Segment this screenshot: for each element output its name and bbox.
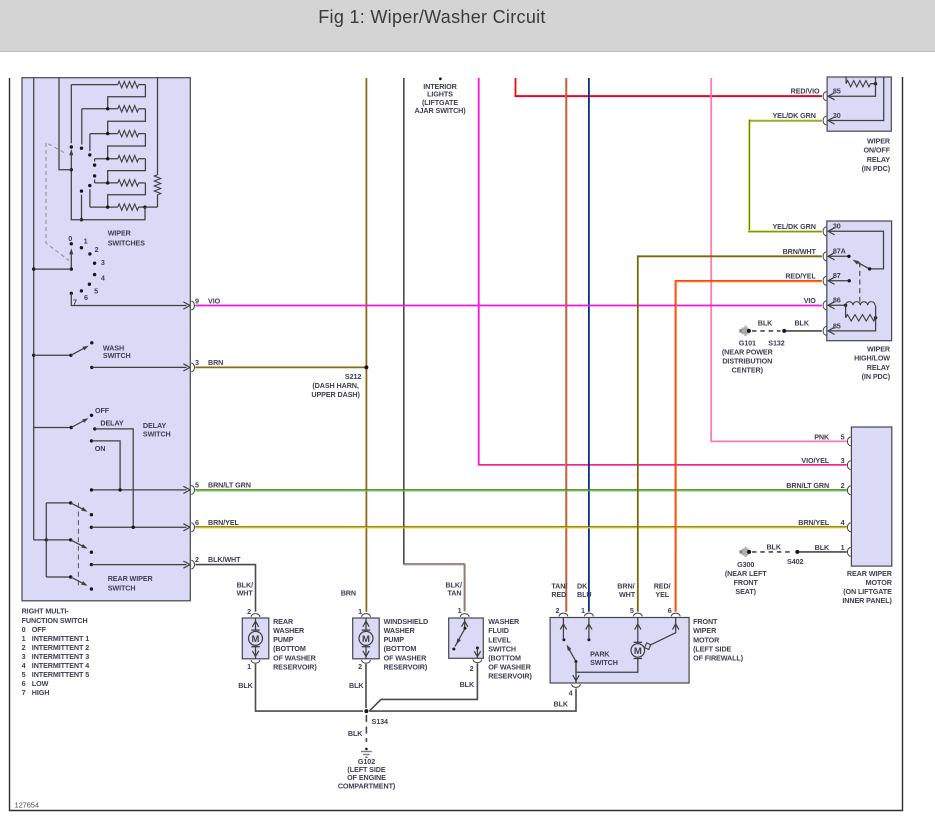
svg-text:FRONT: FRONT [693, 617, 718, 626]
svg-text:1: 1 [458, 606, 462, 615]
node 86 coil junction [844, 304, 847, 307]
svg-text:PUMP: PUMP [384, 635, 405, 644]
svg-text:1: 1 [84, 237, 88, 246]
pin 2 arc bottom [362, 660, 371, 663]
svg-text:SWITCH: SWITCH [103, 351, 131, 360]
svg-text:BLK: BLK [815, 543, 830, 552]
svg-text:VIO/YEL: VIO/YEL [801, 456, 829, 465]
node delay OFF contact [90, 414, 93, 417]
pin 1 arc top fw [585, 613, 594, 616]
node contact 0 [70, 242, 73, 245]
svg-text:SWITCHES: SWITCHES [108, 238, 145, 247]
node pin5 start [90, 488, 93, 491]
svg-text:(IN PDC): (IN PDC) [862, 164, 891, 173]
pin 2 arc bottom [473, 659, 482, 662]
svg-text:RED/YEL: RED/YEL [785, 272, 816, 281]
svg-text:LEVEL: LEVEL [488, 635, 511, 644]
wire U2 pin30 internal [830, 231, 884, 269]
fluid switch bottom lead [476, 648, 478, 658]
wire pin 2 output [91, 564, 186, 566]
pin 6 arc top [671, 613, 680, 616]
fluid switch top lead [464, 618, 466, 628]
svg-text:2: 2 [358, 662, 362, 671]
wire rail to wash pivot [34, 354, 71, 356]
svg-text:9: 9 [195, 296, 199, 305]
svg-text:REAR WIPER: REAR WIPER [847, 569, 893, 578]
svg-text:BRN/YEL: BRN/YEL [208, 518, 240, 527]
node rail junction wash [32, 354, 35, 357]
svg-text:M: M [252, 634, 260, 645]
wire YEL/DK GRN relay30 to relay30 [749, 119, 822, 121]
svg-text:(LEFT SIDE: (LEFT SIDE [693, 644, 731, 653]
svg-text:G101: G101 [739, 339, 756, 348]
svg-text:MOTOR: MOTOR [866, 578, 893, 587]
svg-text:TAN: TAN [448, 589, 462, 598]
dashed BLK to G300 [752, 551, 794, 553]
node rear wiper feed junction [45, 538, 48, 541]
wire BLK windshield pump to S134 [365, 664, 367, 708]
node delay DELAY contact [93, 427, 96, 430]
node park pin2 contact [562, 638, 565, 641]
svg-text:BRN: BRN [208, 358, 223, 367]
node pin6 delay junction [132, 526, 135, 529]
washer fluid level switch box [449, 618, 484, 658]
svg-text:(IN PDC): (IN PDC) [862, 372, 891, 381]
svg-text:AJAR SWITCH): AJAR SWITCH) [414, 106, 466, 115]
pin 87A connector arc [823, 252, 826, 261]
wire R2 right staircase to R3 [108, 109, 146, 134]
svg-text:2: 2 [195, 555, 199, 564]
node contact R1 [70, 145, 73, 148]
wire PNK vertical from top [710, 78, 712, 441]
svg-text:RESERVOIR): RESERVOIR) [488, 672, 532, 681]
node fluid blade top [464, 627, 467, 630]
pin 30 connector arc U2 [823, 227, 826, 236]
wire ladder bottom wrap rail [71, 170, 145, 220]
svg-text:CENTER): CENTER) [732, 366, 764, 375]
svg-text:SWITCH: SWITCH [488, 644, 516, 653]
svg-text:6: 6 [22, 679, 26, 688]
svg-text:86: 86 [833, 296, 841, 305]
pin 5 exit arrow [183, 486, 190, 493]
svg-text:2: 2 [841, 481, 845, 490]
pin 85 connector arc U2 [823, 327, 826, 336]
wire RED/VIO horizontal to wiper on/off relay pin 85 [515, 96, 822, 98]
node wash output contact [90, 366, 93, 369]
svg-text:OF FIREWALL): OF FIREWALL) [693, 654, 744, 663]
svg-text:LOW: LOW [32, 679, 49, 688]
svg-text:RED/VIO: RED/VIO [791, 86, 820, 95]
pin 1 arc top [362, 614, 371, 617]
node wash contact [90, 341, 93, 344]
wire top arm feed [46, 502, 70, 504]
svg-text:RELAY: RELAY [867, 155, 891, 164]
windshield pump top lead [365, 618, 367, 630]
U2 switch blade [855, 261, 870, 269]
svg-text:(NEAR POWER: (NEAR POWER [722, 348, 774, 357]
svg-text:VIO: VIO [804, 296, 817, 305]
svg-text:SWITCH: SWITCH [108, 584, 136, 593]
middle blade [71, 540, 85, 547]
svg-text:OFF: OFF [32, 625, 47, 634]
svg-text:INNER PANEL): INNER PANEL) [842, 596, 892, 605]
svg-text:1: 1 [22, 634, 26, 643]
title bar [0, 0, 935, 52]
pin 30 connector arc [823, 116, 826, 125]
node wash pivot [69, 354, 72, 357]
svg-text:5: 5 [630, 606, 634, 615]
node U2 resistor right [874, 316, 877, 319]
node park pivot [575, 660, 578, 663]
interior lights off-page marker [439, 77, 442, 80]
wire U1 pin30 internal [830, 77, 884, 121]
svg-text:5: 5 [22, 670, 26, 679]
svg-text:BRN/YEL: BRN/YEL [798, 518, 830, 527]
svg-text:127654: 127654 [15, 801, 39, 810]
svg-text:YEL/DK GRN: YEL/DK GRN [772, 222, 815, 231]
svg-text:S402: S402 [787, 557, 803, 566]
svg-text:DELAY: DELAY [100, 418, 124, 427]
ground G102 [365, 748, 368, 751]
svg-text:3: 3 [22, 652, 26, 661]
node fluid blade bottom [452, 648, 455, 651]
wiper on/off relay U1 [827, 77, 891, 131]
park switch pin2 lead [562, 618, 564, 639]
wire U2 pin86 internal [830, 304, 846, 306]
top blade [71, 503, 85, 510]
splice S402 [795, 550, 799, 554]
wire DK BLU vertical from top to front wiper motor pin 1 [588, 78, 590, 612]
svg-text:4: 4 [101, 273, 105, 282]
node R3 junction [106, 132, 109, 135]
wire BLK vertical from top [403, 78, 405, 564]
node pin6 contact [90, 526, 93, 529]
wire BLK/WHT pin 2 to rear washer pump [195, 565, 255, 612]
delay blade [71, 420, 86, 428]
node contact 4 [93, 273, 96, 276]
pin 6 exit arrow [183, 524, 190, 531]
wire R6 left stub [89, 189, 91, 207]
motor brush tab [645, 643, 651, 650]
svg-text:DISTRIBUTION: DISTRIBUTION [722, 357, 772, 366]
resistor R2 [82, 108, 118, 110]
wire middle arm feed [46, 539, 70, 541]
svg-text:2: 2 [95, 245, 99, 254]
svg-text:WIPER: WIPER [693, 626, 717, 635]
svg-text:PUMP: PUMP [273, 635, 294, 644]
svg-text:UPPER DASH): UPPER DASH) [311, 390, 360, 399]
wire BLK rear motor pin1 to S402 [797, 551, 847, 553]
lower selector arm [69, 248, 73, 254]
pin 5 arc [847, 437, 850, 446]
svg-text:HIGH: HIGH [32, 688, 50, 697]
pin 6 lead to motor [650, 618, 676, 646]
node contact R6 [88, 184, 91, 187]
svg-text:RESERVOIR): RESERVOIR) [273, 662, 317, 671]
node contact 1 [80, 246, 83, 249]
pin 3 exit arrow [183, 364, 190, 371]
wire BRN vertical from top to S212 and windshield pump [365, 78, 367, 612]
wire BRN/LT GRN pin 5 to rear wiper motor pin 2 [195, 489, 847, 491]
upper selector arm arrow [69, 149, 73, 155]
pin 1 arc [847, 548, 850, 557]
wire BLK/TAN to washer fluid level switch [403, 563, 464, 565]
node R6 junction [106, 205, 109, 208]
node contact R2 [80, 147, 83, 150]
svg-text:BLK: BLK [758, 319, 773, 328]
front wiper motor box [550, 618, 689, 684]
wire BRN/YEL pin 6 to rear wiper motor pin 4 [195, 526, 847, 528]
bottom blade [71, 577, 85, 584]
node rail junction at lower arm [32, 267, 35, 270]
node wrap junction on bottom rail [80, 218, 83, 221]
node 87 contact [848, 279, 851, 282]
svg-text:85: 85 [833, 87, 841, 96]
resistor R7 vertical with rail to top [157, 78, 159, 175]
svg-text:SWITCH: SWITCH [590, 658, 618, 667]
svg-text:BLK: BLK [349, 681, 364, 690]
svg-text:RIGHT MULTI-: RIGHT MULTI- [22, 606, 70, 615]
svg-text:WASHER: WASHER [384, 626, 416, 635]
wiper high/low relay U2 [827, 221, 892, 341]
node contact 6 [80, 289, 83, 292]
pin 1 arc top [460, 614, 469, 617]
svg-text:OF WASHER: OF WASHER [384, 653, 428, 662]
pin 86 connector arc [823, 301, 826, 310]
pin 1 arc bottom [251, 660, 260, 663]
node R5 junction [106, 181, 109, 184]
node R6 right end [143, 205, 146, 208]
park pivot to pin 4 [575, 662, 577, 683]
svg-text:MOTOR: MOTOR [693, 635, 720, 644]
svg-text:S134: S134 [372, 717, 388, 726]
dashed BLK to G101 [752, 330, 781, 332]
wire R1 right staircase to R2 [108, 85, 146, 109]
svg-text:5: 5 [841, 432, 845, 441]
node U2 common [868, 267, 871, 270]
node contact 5 [88, 283, 91, 286]
wire U2 pin87A internal [830, 255, 849, 257]
svg-text:INTERMITTENT 1: INTERMITTENT 1 [32, 634, 89, 643]
svg-text:1: 1 [358, 607, 362, 616]
pin 2 arc top [559, 613, 568, 616]
resistor R1 [71, 84, 118, 86]
svg-text:3: 3 [195, 358, 199, 367]
U2 mechanical link dashed [859, 262, 861, 303]
pin 3 arc [847, 461, 850, 470]
svg-text:BLK: BLK [348, 729, 363, 738]
resistor R5 [95, 182, 118, 184]
svg-text:G300: G300 [737, 560, 754, 569]
wire rail to delay pivot [34, 427, 71, 429]
node contact 2 [88, 252, 91, 255]
pin 5 lead to motor [637, 618, 639, 643]
wire RED/YEL front wiper motor pin6 to relay 87 [674, 281, 676, 612]
svg-text:S132: S132 [768, 339, 784, 348]
pin 87 connector arc [823, 276, 826, 285]
svg-text:5: 5 [195, 480, 199, 489]
left supply rail [33, 78, 35, 540]
node pin5 ON junction [118, 488, 121, 491]
svg-text:5: 5 [94, 287, 98, 296]
svg-text:BLK: BLK [794, 319, 809, 328]
node fluid bottom contact [476, 647, 479, 650]
wire bottom arm feed [46, 576, 70, 578]
wire BLK relay85 to S132 [784, 330, 822, 332]
svg-text:2: 2 [555, 606, 559, 615]
svg-text:85: 85 [833, 321, 841, 330]
svg-text:WHT: WHT [237, 589, 254, 598]
svg-text:OFF: OFF [95, 406, 110, 415]
wire BLK rear pump to S134 rail [256, 664, 364, 711]
rear pump bottom lead [255, 647, 257, 659]
relay U1 coil resistor [845, 77, 847, 84]
svg-text:ON/OFF: ON/OFF [863, 146, 890, 155]
svg-text:1: 1 [581, 606, 585, 615]
wire U1 coil to top [875, 77, 877, 84]
node pin2 contact [90, 563, 93, 566]
svg-text:INTERMITTENT 3: INTERMITTENT 3 [32, 652, 89, 661]
svg-text:OF WASHER: OF WASHER [488, 663, 532, 672]
wire R5 left stub [94, 180, 96, 183]
svg-text:WIPER: WIPER [108, 229, 132, 238]
node contact 7 [70, 292, 73, 295]
wire pin 6 output [91, 526, 186, 528]
splice S134 [364, 709, 368, 713]
dashed mechanical link upper [46, 143, 69, 261]
rear washer pump motor [251, 629, 259, 631]
svg-text:Fig 1: Wiper/Washer Circuit: Fig 1: Wiper/Washer Circuit [318, 7, 545, 27]
svg-text:30: 30 [833, 222, 841, 231]
wire VIO pin 9 to wiper high/low relay pin 86 [195, 305, 822, 307]
svg-text:4: 4 [569, 689, 573, 698]
svg-text:WIPER: WIPER [867, 345, 891, 354]
dashed mechanical link rear wiper [77, 503, 79, 589]
svg-text:FUNCTION SWITCH: FUNCTION SWITCH [22, 616, 88, 625]
node contact R3 [88, 153, 91, 156]
svg-text:1: 1 [247, 662, 251, 671]
wire pin 5 output [92, 489, 187, 491]
svg-text:BLK: BLK [238, 681, 253, 690]
svg-text:4: 4 [22, 661, 26, 670]
wire R6 to R7 rail [145, 206, 158, 208]
rear washer pump box [242, 618, 268, 659]
windshield washer pump motor [362, 629, 370, 631]
svg-text:1: 1 [841, 543, 845, 552]
wire rail to rear wiper [34, 539, 47, 541]
wire RED/VIO vertical from top [515, 78, 517, 97]
wire U2 pin85 internal [830, 318, 876, 331]
resistor R3 [90, 133, 118, 135]
node middle arm pivot [69, 538, 72, 541]
svg-text:87: 87 [833, 271, 841, 280]
svg-text:0: 0 [22, 625, 26, 634]
svg-text:87A: 87A [833, 247, 846, 256]
pin 85 connector arc [823, 92, 826, 101]
U2 coil parallel resistor [845, 305, 847, 318]
node 87A contact [847, 255, 850, 258]
node contact R5 [93, 174, 96, 177]
fluid switch blade [455, 628, 465, 646]
svg-text:2: 2 [22, 643, 26, 652]
svg-text:6: 6 [668, 606, 672, 615]
svg-text:BLK: BLK [460, 680, 475, 689]
pin 2 arc [847, 486, 850, 495]
svg-text:VIO: VIO [208, 296, 221, 305]
svg-text:WHT: WHT [619, 590, 636, 599]
svg-text:(BOTTOM: (BOTTOM [488, 654, 521, 663]
svg-text:6: 6 [84, 293, 88, 302]
svg-text:WASHER: WASHER [273, 626, 305, 635]
windshield pump bottom lead [365, 647, 367, 659]
wire R5 right staircase to R6 [108, 183, 146, 207]
node bottom arm pivot [69, 575, 72, 578]
wire rail to lower arm pivot [34, 268, 72, 270]
svg-text:7: 7 [22, 688, 26, 697]
svg-text:2: 2 [247, 607, 251, 616]
pin 5 arc top [633, 613, 642, 616]
wire R4 right staircase to R5 [108, 159, 146, 183]
node upper arm pivot [70, 168, 73, 171]
node park pin1 contact [587, 638, 590, 641]
svg-text:REAR WIPER: REAR WIPER [108, 574, 154, 583]
wire BRN from pin 3 to S212 [195, 366, 366, 368]
wire R3 left stub [89, 134, 91, 152]
rear wiper left rail [45, 503, 47, 577]
svg-text:BRN/LT GRN: BRN/LT GRN [786, 481, 829, 490]
svg-text:ON: ON [95, 444, 106, 453]
svg-text:OF WASHER: OF WASHER [273, 653, 317, 662]
wire motor bottom to pivot [576, 659, 638, 672]
svg-text:COMPARTMENT): COMPARTMENT) [338, 782, 396, 791]
svg-text:(BOTTOM: (BOTTOM [273, 644, 306, 653]
svg-text:WINDSHIELD: WINDSHIELD [384, 617, 429, 626]
svg-text:(ON LIFTGATE: (ON LIFTGATE [843, 587, 892, 596]
svg-text:FLUID: FLUID [488, 626, 509, 635]
svg-text:BRN/WHT: BRN/WHT [783, 247, 817, 256]
svg-text:WASHER: WASHER [488, 617, 520, 626]
node U1 coil junction [874, 82, 877, 85]
svg-text:6: 6 [195, 518, 199, 527]
svg-text:HIGH/LOW: HIGH/LOW [854, 354, 890, 363]
node bottom blade contact [90, 587, 93, 590]
svg-text:2: 2 [470, 664, 474, 673]
svg-text:3: 3 [841, 456, 845, 465]
svg-text:SEAT): SEAT) [735, 587, 756, 596]
svg-text:(BOTTOM: (BOTTOM [384, 644, 417, 653]
splice S212 [364, 365, 368, 369]
park switch pin1 lead [588, 618, 590, 639]
svg-text:PNK: PNK [814, 432, 830, 441]
wire wrap contact stub [81, 195, 83, 220]
svg-text:REAR: REAR [273, 617, 294, 626]
pin 9 exit arrow [183, 302, 190, 309]
windshield washer pump box [353, 618, 380, 659]
wire R4 left stub [94, 159, 96, 162]
svg-text:S212: S212 [345, 372, 361, 381]
node delay pivot [70, 426, 73, 429]
node contact wrap [80, 189, 83, 192]
svg-text:YEL: YEL [655, 590, 669, 599]
wash switch blade [71, 347, 86, 355]
wire U1 pin85 internal [830, 84, 876, 97]
resistor R6 [90, 206, 118, 208]
node contact 3 [93, 262, 96, 265]
U2 coil [846, 302, 875, 306]
svg-text:BLK: BLK [554, 700, 569, 709]
svg-text:WIPER: WIPER [867, 136, 891, 145]
svg-text:INTERMITTENT 5: INTERMITTENT 5 [32, 670, 89, 679]
